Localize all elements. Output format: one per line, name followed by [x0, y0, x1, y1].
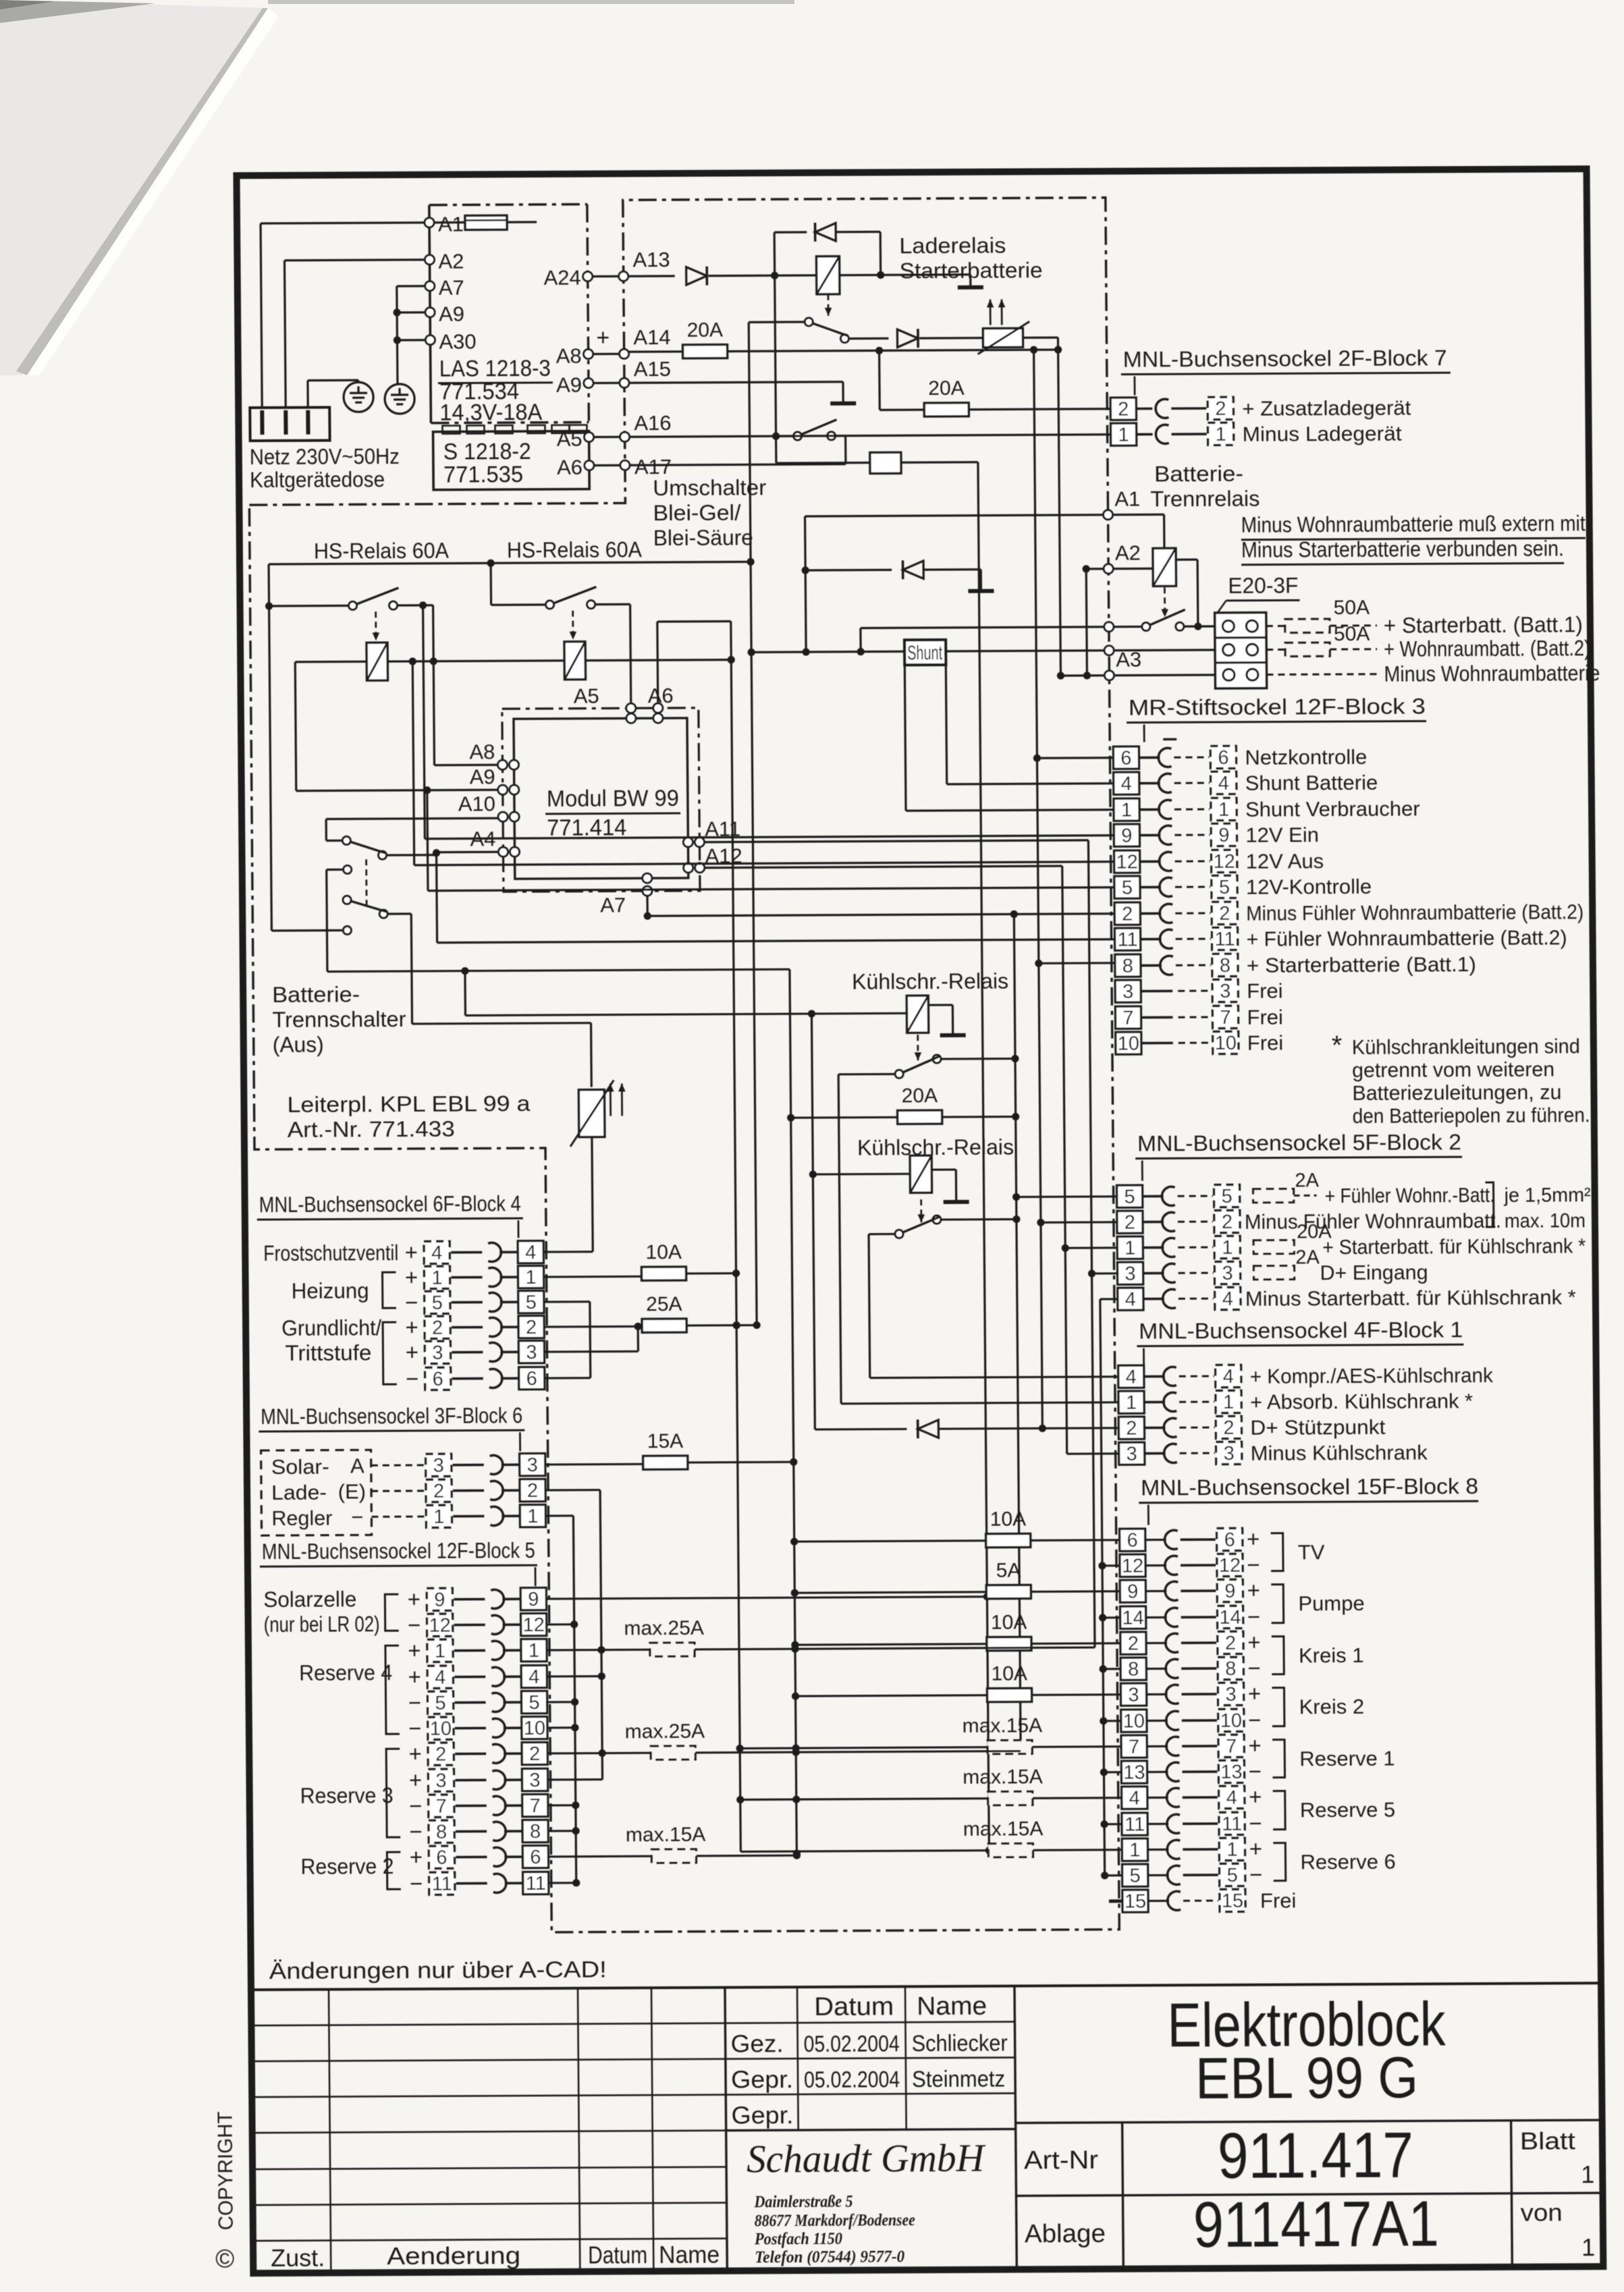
svg-text:50A: 50A: [1334, 623, 1370, 645]
fuse max.15A Reserve 1: [740, 1747, 987, 1749]
svg-text:MNL-Buchsensockel 5F-Block 2: MNL-Buchsensockel 5F-Block 2: [1137, 1130, 1461, 1155]
diode D4: [805, 569, 892, 572]
connector row Block2 pin 4: [1118, 1288, 1143, 1310]
connector row Block3 pin 1: [1114, 798, 1139, 821]
fuse max.15A reserve2: [651, 1849, 696, 1863]
node A13: [619, 271, 628, 281]
svg-text:1: 1: [529, 1640, 539, 1662]
fuse max.15A Reserve 6: [740, 1851, 988, 1852]
connector row Block4 pin 3: [425, 1341, 450, 1363]
svg-text:4: 4: [1218, 773, 1229, 794]
svg-text:10: 10: [1118, 1033, 1140, 1055]
svg-text:Kühlschr.-Relais: Kühlschr.-Relais: [857, 1135, 1014, 1159]
svg-text:1: 1: [1218, 799, 1229, 821]
wire block2 pin1 feed: [1065, 1247, 1117, 1249]
terminal A2: [425, 255, 434, 265]
svg-text:1: 1: [1581, 2233, 1595, 2261]
svg-text:Batteriezuleitungen, zu: Batteriezuleitungen, zu: [1352, 1080, 1561, 1105]
earth symbol chassis: [385, 384, 414, 414]
svg-text:Minus Wohnraumbatterie: Minus Wohnraumbatterie: [1384, 661, 1600, 686]
connector row Block5 pin 9: [427, 1588, 452, 1610]
wire mains L to A1: [261, 223, 262, 408]
svg-text:4: 4: [1125, 1289, 1136, 1311]
wire A3 feed: [1060, 674, 1104, 677]
svg-text:14: 14: [1122, 1608, 1144, 1629]
mains connector Kaltgeraetedose: [250, 408, 329, 441]
node E20 row1 boundary: [1104, 622, 1114, 632]
svg-text:−: −: [408, 1612, 421, 1637]
svg-text:Frei: Frei: [1247, 1031, 1284, 1054]
wire A8 to A14: [593, 353, 620, 355]
connector row Block4 pin 2: [425, 1316, 450, 1338]
terminal A6 module: [585, 461, 594, 470]
svg-text:Gepr.: Gepr.: [731, 2065, 793, 2093]
bracket Kreis 2: [1272, 1688, 1284, 1726]
svg-text:MNL-Buchsensockel 2F-Block 7: MNL-Buchsensockel 2F-Block 7: [1123, 346, 1447, 371]
connector row Block3 pin 7: [1115, 1006, 1141, 1029]
fuse max.15A Reserve 5: [740, 1799, 988, 1800]
wire minus Wohnraumbatterie dashed: [1266, 673, 1377, 676]
wire A1 to relay coil: [1113, 514, 1164, 516]
svg-text:2: 2: [527, 1480, 538, 1502]
svg-text:15: 15: [1125, 1891, 1147, 1913]
svg-text:1: 1: [433, 1506, 444, 1528]
svg-text:LAS 1218-3: LAS 1218-3: [439, 356, 551, 382]
svg-text:Kühlschrankleitungen sind: Kühlschrankleitungen sind: [1352, 1034, 1580, 1059]
fuse 25A Grundlicht: [642, 1319, 686, 1332]
wire block6 pin2 riser: [545, 1489, 600, 1492]
svg-text:2: 2: [1215, 398, 1226, 420]
svg-text:2: 2: [433, 1481, 444, 1502]
node A1 boundary: [1103, 510, 1112, 520]
svg-text:Frei: Frei: [1260, 1888, 1297, 1912]
svg-text:−: −: [1249, 1811, 1262, 1836]
svg-text:A1: A1: [1114, 487, 1140, 511]
svg-text:4: 4: [1222, 1288, 1233, 1310]
svg-text:9: 9: [1218, 825, 1229, 846]
svg-text:5: 5: [1226, 1865, 1237, 1886]
wire pin8 Starterbatterie: [1039, 962, 1115, 964]
wire pin15 minus stub: [1109, 1899, 1122, 1903]
terminal A30: [425, 335, 435, 345]
wire block1 pin1 feed: [841, 1402, 1118, 1404]
wire solar A dashed: [371, 1464, 425, 1466]
svg-text:Frei: Frei: [1247, 1005, 1283, 1029]
svg-text:5: 5: [1122, 877, 1133, 899]
svg-text:Minus Ladegerät: Minus Ladegerät: [1242, 422, 1402, 446]
svg-text:12V-Kontrolle: 12V-Kontrolle: [1246, 875, 1372, 899]
svg-text:9: 9: [434, 1589, 445, 1611]
svg-text:−: −: [1249, 1759, 1262, 1784]
svg-text:A17: A17: [634, 455, 672, 479]
svg-text:Kreis 2: Kreis 2: [1299, 1695, 1365, 1718]
svg-text:2: 2: [1122, 904, 1133, 925]
svg-text:2A: 2A: [1295, 1170, 1319, 1191]
fuse 50A starter battery: [1266, 625, 1285, 627]
wire A5 to A16: [594, 436, 620, 438]
ground relay1: [940, 1033, 966, 1037]
svg-text:14,3V-18A: 14,3V-18A: [439, 400, 543, 426]
svg-text:7: 7: [1226, 1736, 1237, 1757]
wire block1 pin3 feed: [1067, 1452, 1119, 1455]
svg-text:4: 4: [1126, 1367, 1137, 1388]
bracket Reserve 1: [1272, 1740, 1284, 1778]
svg-text:Lade-: Lade-: [271, 1481, 327, 1504]
connector row Block8 pin 9: [1120, 1580, 1145, 1602]
svg-text:Name: Name: [917, 1992, 987, 2021]
svg-text:A30: A30: [439, 329, 476, 353]
ground A15: [830, 402, 856, 406]
svg-text:A24: A24: [543, 266, 580, 290]
svg-text:+: +: [410, 1845, 423, 1870]
connector row Block1 pin 1: [1118, 1391, 1144, 1413]
svg-text:10: 10: [1123, 1711, 1145, 1732]
svg-text:5: 5: [1219, 877, 1230, 898]
svg-text:Trennrelais: Trennrelais: [1150, 487, 1260, 512]
svg-text:A15: A15: [634, 357, 671, 381]
connector row Block8 pin 7: [1121, 1735, 1147, 1757]
wire block5 pin2 pin3 reserve3: [547, 1752, 651, 1755]
wire pin6 Netzkontrolle: [1037, 757, 1113, 759]
fuse max.25A reserve4: [650, 1643, 695, 1656]
diode D3: [848, 337, 888, 339]
svg-text:Daimlerstraße 5: Daimlerstraße 5: [754, 2193, 853, 2212]
block5 minus taps: [547, 1623, 574, 1625]
svg-text:−: −: [1247, 1604, 1261, 1629]
svg-text:3: 3: [1225, 1684, 1236, 1706]
svg-text:5: 5: [529, 1692, 539, 1714]
wire block6 pin1 riser: [545, 1515, 573, 1517]
connector row Block8 pin 1: [1122, 1838, 1147, 1861]
svg-text:Name: Name: [659, 2241, 720, 2268]
svg-text:1: 1: [1222, 1237, 1233, 1259]
svg-text:1: 1: [1226, 1839, 1237, 1861]
svg-text:Minus Wohnraumbatterie muß ext: Minus Wohnraumbatterie muß extern mit: [1241, 511, 1586, 537]
wire A15 to ground: [629, 382, 843, 383]
svg-text:MR-Stiftsockel 12F-Block 3: MR-Stiftsockel 12F-Block 3: [1129, 694, 1426, 719]
switch Batterie-Trennschalter lower: [343, 896, 351, 904]
connector row Block3 pin 10: [1116, 1032, 1141, 1054]
svg-text:11: 11: [432, 1874, 452, 1895]
fuse 5A Pumpe: [794, 1592, 986, 1593]
node A2 boundary: [1104, 564, 1113, 574]
svg-text:10: 10: [430, 1718, 452, 1740]
svg-text:A8: A8: [469, 740, 495, 763]
svg-text:Modul BW 99: Modul BW 99: [547, 786, 679, 812]
svg-text:6: 6: [530, 1847, 541, 1868]
comb connector between LAS and S module: [442, 426, 460, 434]
svg-text:A9: A9: [439, 302, 464, 326]
svg-text:2: 2: [1118, 399, 1129, 420]
svg-text:+ Kompr./AES-Kühlschrank: + Kompr./AES-Kühlschrank: [1250, 1363, 1494, 1388]
svg-text:D+ Stützpunkt: D+ Stützpunkt: [1250, 1415, 1386, 1440]
svg-text:5: 5: [1129, 1865, 1140, 1887]
fuse 2A Fuehler: [1253, 1189, 1294, 1202]
wire block2 pin2 feed: [1041, 1221, 1117, 1224]
svg-text:+: +: [408, 1741, 422, 1766]
svg-text:max.15A: max.15A: [963, 1818, 1044, 1840]
svg-text:1: 1: [1223, 1392, 1234, 1413]
svg-text:15: 15: [1222, 1890, 1244, 1912]
terminal A8 charger: [584, 350, 593, 359]
svg-text:+: +: [405, 1315, 418, 1340]
svg-text:max.15A: max.15A: [963, 1766, 1043, 1789]
svg-text:+: +: [1249, 1836, 1263, 1861]
connector row Block3 pin 2: [1114, 902, 1140, 925]
svg-text:1: 1: [1118, 425, 1129, 446]
svg-text:Blei-Gel/: Blei-Gel/: [653, 500, 740, 525]
svg-text:(E): (E): [338, 1479, 367, 1503]
svg-text:COPYRIGHT: COPYRIGHT: [213, 2111, 237, 2230]
component box charge sense: [776, 462, 870, 464]
coupling dashed Trennschalter: [365, 859, 367, 908]
svg-text:max.25A: max.25A: [624, 1617, 704, 1640]
vertical D+ bus: [811, 1014, 815, 1429]
svg-text:911.417: 911.417: [1218, 2119, 1414, 2192]
svg-text:Batterie-: Batterie-: [1154, 462, 1243, 487]
svg-text:25A: 25A: [646, 1293, 682, 1315]
vertical bus V9: [749, 322, 757, 1325]
svg-text:max.15A: max.15A: [626, 1824, 706, 1847]
svg-text:05.02.2004: 05.02.2004: [804, 2067, 900, 2093]
svg-text:je 1,5mm²: je 1,5mm²: [1504, 1184, 1591, 1207]
svg-text:Kühlschr.-Relais: Kühlschr.-Relais: [852, 969, 1008, 994]
svg-text:4: 4: [435, 1667, 445, 1689]
svg-text:12V Aus: 12V Aus: [1245, 849, 1324, 873]
diode D1 charge line: [686, 267, 707, 285]
wire pin12 12V Aus: [414, 862, 1114, 865]
svg-text:−: −: [409, 1793, 423, 1818]
svg-text:+: +: [596, 325, 610, 350]
connector row Block5 pin 8: [429, 1820, 454, 1843]
svg-text:7: 7: [1129, 1737, 1139, 1758]
svg-text:1: 1: [1126, 1392, 1137, 1414]
connector row Block6 pin 1: [426, 1505, 452, 1527]
svg-text:HS-Relais 60A: HS-Relais 60A: [314, 539, 450, 564]
svg-text:Grundlicht/: Grundlicht/: [281, 1315, 381, 1340]
svg-text:Blei-Säure: Blei-Säure: [653, 525, 753, 550]
svg-text:+: +: [1247, 1527, 1260, 1552]
svg-text:9: 9: [528, 1589, 539, 1610]
wire A6 to A17: [594, 464, 620, 466]
svg-text:Shunt Verbraucher: Shunt Verbraucher: [1245, 796, 1420, 821]
svg-text:2: 2: [1219, 903, 1230, 925]
vertical bus V7: [790, 969, 796, 1853]
svg-text:MNL-Buchsensockel 3F-Block 6: MNL-Buchsensockel 3F-Block 6: [261, 1403, 522, 1429]
wire A6 riser: [656, 622, 659, 703]
block8 minus bus taps: [1102, 1564, 1120, 1566]
svg-text:3: 3: [1223, 1443, 1234, 1465]
vertical bus V4 lower: [1088, 840, 1095, 1647]
svg-text:−: −: [1247, 1656, 1261, 1681]
wire mains PE to earth: [306, 381, 309, 408]
connector row Block8 pin 14: [1120, 1606, 1145, 1629]
svg-text:Art.-Nr. 771.433: Art.-Nr. 771.433: [288, 1117, 455, 1142]
svg-text:4: 4: [1121, 773, 1132, 795]
switch Kuehlschrank relay 2: [920, 1199, 922, 1222]
svg-text:TV: TV: [1298, 1540, 1325, 1564]
connector row Block8 pin 12: [1120, 1554, 1145, 1577]
connector row Block5 pin 5: [427, 1691, 453, 1714]
wire Minus Ladegeraet: [775, 275, 776, 463]
svg-text:2: 2: [1222, 1211, 1233, 1233]
contact middle Trennschalter: [344, 865, 352, 873]
switch charge relay contact: [827, 294, 829, 316]
connector row Block6 pin 3: [426, 1454, 452, 1476]
wire block6 pin3 15A: [545, 1463, 643, 1466]
relay coil Laderelais: [816, 256, 839, 294]
svg-text:Gez.: Gez.: [730, 2029, 783, 2057]
svg-text:Telefon (07544) 9577-0: Telefon (07544) 9577-0: [755, 2247, 905, 2266]
svg-text:20A: 20A: [686, 319, 723, 342]
wire relay2 coil feed: [813, 1173, 910, 1176]
svg-text:3: 3: [526, 1342, 537, 1363]
svg-text:3: 3: [432, 1342, 443, 1364]
fuse 50A Wohnraum battery: [1266, 649, 1285, 651]
svg-text:Shunt Batterie: Shunt Batterie: [1245, 771, 1378, 795]
svg-text:1: 1: [435, 1641, 445, 1662]
vertical bus V4 upper: [1086, 569, 1087, 676]
svg-text:A9: A9: [556, 373, 582, 397]
connector row Block8 pin 2: [1120, 1632, 1146, 1654]
vertical bus V2: [1034, 350, 1043, 1428]
svg-text:A8: A8: [556, 344, 582, 368]
svg-text:von: von: [1521, 2198, 1563, 2226]
connector row Block3 pin 8: [1115, 954, 1141, 977]
wire block5 pin9 solar plus: [546, 1597, 987, 1599]
connector row Block7 pin 2: [1110, 398, 1136, 420]
svg-text:5A: 5A: [996, 1559, 1021, 1581]
svg-text:5: 5: [1221, 1186, 1232, 1207]
svg-text:6: 6: [526, 1368, 537, 1390]
svg-text:1: 1: [1215, 424, 1226, 445]
charger module LAS 1218-3: [429, 205, 431, 423]
connector row Block2 pin 5: [1116, 1185, 1142, 1207]
svg-text:Netzkontrolle: Netzkontrolle: [1245, 745, 1367, 769]
svg-text:12: 12: [522, 1614, 545, 1636]
svg-text:2: 2: [435, 1744, 446, 1766]
svg-text:4: 4: [1226, 1787, 1237, 1809]
svg-text:4: 4: [529, 1666, 539, 1688]
svg-text:A16: A16: [634, 411, 671, 435]
connector row Block5 pin 2: [428, 1743, 454, 1765]
svg-text:Reserve 1: Reserve 1: [1299, 1747, 1395, 1771]
wire switch lower riser: [411, 914, 412, 1024]
fuse 10A TV: [794, 1541, 986, 1541]
svg-text:3: 3: [433, 1455, 444, 1477]
svg-text:Minus Starterbatterie verbunde: Minus Starterbatterie verbunden sein.: [1241, 536, 1564, 562]
svg-text:5: 5: [435, 1693, 445, 1714]
wire block2 pin4 feed: [1100, 1298, 1118, 1300]
svg-text:MNL-Buchsensockel 4F-Block 1: MNL-Buchsensockel 4F-Block 1: [1139, 1317, 1463, 1343]
svg-text:771.535: 771.535: [443, 462, 523, 488]
svg-text:6: 6: [1218, 747, 1228, 769]
svg-text:+: +: [408, 1587, 421, 1612]
fuse 20A Zusatzladegeraet: [878, 350, 881, 410]
bracket je 1,5mm2 max 10m: [1485, 1182, 1494, 1227]
wire block5 pin1 pin4 reserve4: [547, 1649, 650, 1652]
connector row Block5 pin 10: [428, 1717, 454, 1739]
svg-text:A: A: [350, 1454, 364, 1477]
svg-text:A9: A9: [470, 765, 495, 788]
svg-text:8: 8: [1220, 955, 1230, 977]
svg-text:20A: 20A: [928, 377, 965, 400]
svg-text:+: +: [1247, 1578, 1260, 1603]
svg-text:88677 Markdorf/Bodensee: 88677 Markdorf/Bodensee: [755, 2211, 915, 2230]
control module S 1218-2: [433, 431, 589, 490]
svg-text:A5: A5: [574, 684, 599, 708]
connector row Block1 pin 4: [1118, 1365, 1144, 1388]
svg-text:7: 7: [436, 1796, 447, 1818]
connector row Block8 pin 15: [1122, 1890, 1148, 1912]
fuse 10A Heizung: [641, 1267, 686, 1280]
wire HS bus: [269, 562, 751, 564]
wire pin2 Minus Fuehler: [647, 914, 1114, 916]
wire block4 pin1 10A: [544, 1276, 642, 1278]
svg-text:Datum: Datum: [588, 2241, 647, 2268]
svg-text:E20-3F: E20-3F: [1228, 573, 1298, 598]
svg-text:A3: A3: [1116, 648, 1141, 672]
connector row Block8 pin 5: [1122, 1864, 1148, 1886]
wire A8/A14 20A feed: [629, 350, 683, 353]
svg-text:A10: A10: [458, 792, 495, 815]
svg-text:Solarzelle: Solarzelle: [263, 1587, 356, 1612]
fuse on A1 line: [434, 221, 465, 223]
svg-text:MNL-Buchsensockel 6F-Block 4: MNL-Buchsensockel 6F-Block 4: [259, 1191, 521, 1217]
fuse 20A charger output: [682, 345, 727, 358]
wire A4 riser to pin11 row: [436, 854, 437, 943]
svg-text:2: 2: [432, 1317, 443, 1339]
fuse 15A solar: [643, 1456, 688, 1469]
svg-text:Reserve 6: Reserve 6: [1300, 1850, 1396, 1874]
wire solar minus dashed: [371, 1515, 425, 1517]
fuse 2A D+: [1253, 1265, 1294, 1279]
terminal A5 module: [585, 433, 594, 442]
connector row Block8 pin 3: [1120, 1683, 1146, 1706]
connector row Block8 pin 13: [1121, 1761, 1147, 1783]
svg-text:Reserve 2: Reserve 2: [300, 1854, 394, 1879]
wire block5 pin6 reserve2: [548, 1855, 651, 1858]
wire block4 pin4 to valve: [543, 1251, 593, 1253]
svg-text:Minus Fühler Wohnraumbatt.: Minus Fühler Wohnraumbatt.: [1245, 1209, 1501, 1234]
wire block4 pin2 pin3 25A: [544, 1326, 642, 1328]
svg-text:50A: 50A: [1334, 597, 1370, 619]
connector row Block8 pin 11: [1122, 1813, 1147, 1835]
svg-text:A2: A2: [438, 250, 464, 273]
border frame: [236, 169, 1603, 2273]
title block table: [251, 1983, 1601, 1990]
connector row Block5 pin 6: [429, 1846, 454, 1868]
switch Kuehlschrank relay 1: [917, 1035, 919, 1060]
earth symbol PE: [344, 382, 373, 412]
fuse 20A refrigerator: [791, 1116, 898, 1119]
node A3 boundary: [1104, 671, 1114, 680]
svg-text:10: 10: [1220, 1710, 1243, 1732]
svg-text:+: +: [404, 1240, 418, 1265]
svg-text:+ Starterbatt. (Batt.1): + Starterbatt. (Batt.1): [1384, 612, 1583, 637]
svg-text:Aenderung: Aenderung: [387, 2241, 520, 2270]
node A16: [620, 432, 630, 441]
svg-text:Schaudt GmbH: Schaudt GmbH: [747, 2136, 987, 2181]
wire block2 pin3 feed: [1092, 1272, 1118, 1274]
connector row Block3 pin 12: [1114, 850, 1140, 873]
svg-text:7: 7: [530, 1795, 541, 1817]
svg-text:2: 2: [1128, 1633, 1139, 1655]
svg-text:1: 1: [1125, 1238, 1135, 1259]
svg-text:+: +: [405, 1265, 418, 1290]
svg-text:7: 7: [1122, 1008, 1133, 1029]
svg-text:Solar-: Solar-: [271, 1455, 329, 1479]
